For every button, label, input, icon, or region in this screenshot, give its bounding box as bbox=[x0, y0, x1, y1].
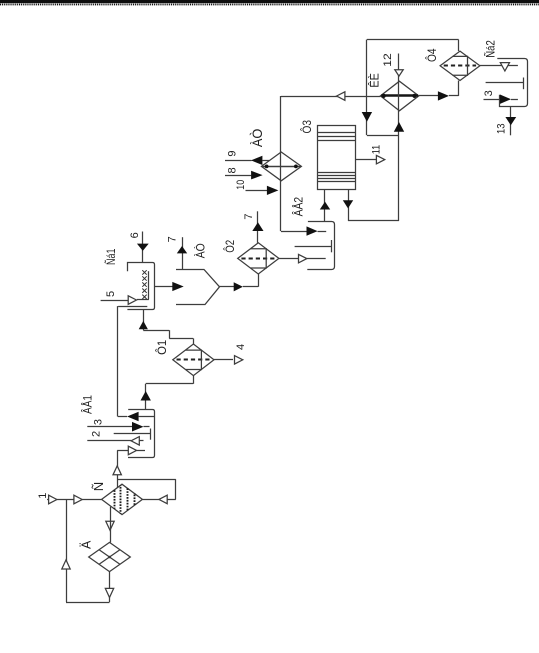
arrow filled right junction outlet bbox=[234, 282, 243, 291]
svg-text:2: 2 bbox=[91, 431, 103, 437]
column F3 packing stripes top bbox=[318, 132, 355, 134]
cooler F2 internal chords bbox=[251, 249, 267, 268]
arrow filled up on BE1 vapor outlet bbox=[141, 391, 151, 401]
arrow filled right Cb1 outlet bbox=[172, 282, 183, 291]
wire compressor discharge riser to BE1 bbox=[117, 450, 119, 487]
arrow filled left stream 9 bbox=[251, 156, 263, 165]
wire top recycle loop left vertical bbox=[366, 40, 368, 136]
arrow open down below compressor bbox=[106, 521, 114, 530]
throttle D internal lattice bbox=[99, 550, 120, 565]
svg-text:Ä: Ä bbox=[80, 540, 94, 549]
svg-text:12: 12 bbox=[382, 53, 394, 67]
arrow filled right stream 3 into Cb2 bbox=[500, 95, 511, 104]
arrow filled up into Cb1 bottom bbox=[139, 321, 148, 329]
wire stream 13 out of Cb2 bottom bbox=[510, 107, 512, 136]
arrow open up on compressor discharge bbox=[113, 466, 121, 475]
wire stream 12 into KI top bbox=[398, 54, 400, 70]
svg-text:6: 6 bbox=[129, 232, 141, 238]
cooler F2 diamond bbox=[238, 243, 279, 274]
wire stream 7 out of F2 top bbox=[257, 211, 259, 243]
svg-text:8: 8 bbox=[227, 167, 239, 173]
separator Cb1 demister support line bbox=[148, 271, 150, 299]
wire stream 5 into Cb1 bbox=[101, 300, 129, 302]
separator Cb2 internal weir bbox=[486, 82, 524, 84]
vessel BE1 shell bbox=[128, 410, 155, 458]
cooler F1 dashed centerline bbox=[177, 359, 211, 361]
svg-text:Ô4: Ô4 bbox=[424, 48, 439, 62]
arrow open on stream 1 (second) bbox=[74, 495, 82, 504]
svg-text:3: 3 bbox=[483, 90, 495, 96]
wire KI feed from left (main pipe) bbox=[281, 96, 380, 98]
throttle D diamond bbox=[89, 542, 131, 571]
arrow open up on throttle loop left bbox=[62, 560, 70, 569]
separator Cb2 shell bbox=[497, 59, 527, 107]
wire stream 7 takeoff at junction bbox=[182, 237, 184, 269]
svg-text:9: 9 bbox=[227, 150, 239, 156]
arrow filled up stream 7 takeoff bbox=[177, 246, 187, 253]
mixing junction jaws bbox=[176, 270, 220, 305]
svg-text:11: 11 bbox=[371, 145, 383, 155]
arrow open on stream 1 (first) bbox=[49, 495, 57, 504]
svg-text:ÂÅ1: ÂÅ1 bbox=[80, 395, 95, 414]
contact evaporator KI diamond bbox=[380, 81, 418, 111]
wire stream 1 inlet line bbox=[47, 499, 102, 501]
cooler F1 diamond bbox=[173, 344, 214, 376]
wire column outlet across to KI riser bbox=[348, 220, 399, 222]
vessel BE1 internal weir bbox=[114, 433, 151, 435]
svg-text:Ñá1: Ñá1 bbox=[104, 248, 118, 265]
arrow filled left at BE1 top inlet bbox=[127, 412, 139, 422]
arrow filled down stream 13 bbox=[505, 117, 516, 125]
arrow open left stream 2 bbox=[131, 437, 139, 446]
arrow open right stream 5 bbox=[128, 296, 136, 305]
air cooler AT dumbbell line bbox=[262, 166, 301, 168]
svg-text:ÂÅ2: ÂÅ2 bbox=[291, 197, 306, 217]
wire throttle loop right riser bbox=[109, 572, 111, 602]
wire column bottom outlet down right bbox=[348, 190, 350, 221]
wire top loop horizontal bbox=[367, 39, 459, 41]
arrow open left on bypass return bbox=[159, 495, 167, 504]
arrow open right compressor feed into BE1 bbox=[128, 446, 136, 455]
svg-text:Ô2: Ô2 bbox=[222, 240, 237, 253]
svg-text:Ñá2: Ñá2 bbox=[484, 40, 498, 58]
wire stream 10 into main pipe bbox=[246, 190, 268, 192]
wire BE1 vapor outlet up to F1 loop bbox=[145, 384, 147, 410]
arrow open right stream 11 bbox=[376, 155, 384, 164]
page top hatched border bbox=[0, 0, 539, 3]
wire BE2 vapor up to column KO bbox=[324, 190, 326, 222]
arrow open left on KI feed wire bbox=[337, 92, 345, 101]
wire stream 2 from BE1 bbox=[87, 440, 131, 442]
separator Cb1 demister x-marks bbox=[142, 270, 146, 299]
cooler F4 diamond bbox=[440, 51, 480, 80]
svg-text:7: 7 bbox=[167, 236, 179, 242]
air cooler AT dumbbell dots bbox=[265, 165, 269, 169]
wire after BE1 lower inlet triangle bbox=[137, 450, 145, 452]
svg-text:Ô1: Ô1 bbox=[154, 340, 169, 355]
arrow filled down on recycle loop bbox=[362, 112, 372, 122]
wire F4 right to separator Cb2 bbox=[480, 65, 518, 67]
arrow open down below throttle D bbox=[105, 588, 113, 597]
wire stream 4 out of F1 bbox=[214, 359, 233, 361]
wire stream 8 into AT bbox=[225, 175, 251, 177]
svg-text:5: 5 bbox=[105, 291, 117, 297]
wire junction outlet bbox=[220, 286, 235, 288]
svg-text:1: 1 bbox=[37, 493, 49, 499]
wire KI outlet right to F4 bbox=[419, 95, 440, 97]
arrow open right into BE2 lower inlet bbox=[299, 254, 307, 263]
wire compressor bypass loop bbox=[117, 479, 176, 481]
contact evaporator KI thick bar bbox=[381, 94, 418, 97]
svg-text:ÀÒ: ÀÒ bbox=[193, 243, 208, 258]
cooler F4 dashed centerline bbox=[444, 65, 476, 67]
arrow filled right stream 8 bbox=[251, 171, 263, 180]
arrow filled right stream 3 into BE1 bbox=[132, 422, 144, 432]
vessel BE2 shell bbox=[307, 222, 334, 270]
wire stream 3 into BE1 bbox=[87, 426, 132, 428]
contact evaporator KI bar dots bbox=[382, 94, 386, 98]
arrow filled right stream 10 bbox=[267, 186, 279, 195]
compressor C diamond bbox=[102, 484, 143, 514]
wire throttle loop bottom bbox=[66, 602, 110, 604]
arrow filled right KI outlet bbox=[438, 91, 449, 100]
wire stream 6 into Cb1 top bbox=[142, 232, 144, 263]
wire top loop down to F4 top bbox=[458, 40, 460, 52]
svg-text:10: 10 bbox=[235, 180, 247, 190]
arrow open right stream 4 bbox=[235, 356, 243, 365]
arrow filled right into BE2 top inlet bbox=[307, 226, 318, 235]
svg-text:4: 4 bbox=[235, 344, 247, 350]
arrow open down into Cb2 bbox=[500, 63, 509, 71]
svg-text:7: 7 bbox=[243, 214, 255, 220]
arrow filled up into KI bottom bbox=[394, 122, 404, 132]
wire main pipe down through AT into BE2 bbox=[280, 96, 282, 231]
separator Cb1 inner bottom line bbox=[118, 306, 147, 308]
wire KI riser bbox=[398, 111, 400, 221]
wire stream 11 out of column bbox=[355, 159, 376, 161]
svg-text:ÀÒ: ÀÒ bbox=[250, 129, 265, 148]
cooler F2 dashed centerline bbox=[241, 258, 274, 260]
vessel BE2 internal weir bbox=[295, 246, 332, 248]
column F3 shell bbox=[318, 126, 356, 190]
svg-text:Ñ: Ñ bbox=[91, 482, 106, 491]
wire liquid from Cb1 down into BE1 bbox=[117, 306, 119, 416]
svg-text:3: 3 bbox=[93, 419, 105, 425]
arrow filled up stream 7 from F2 bbox=[252, 222, 263, 231]
svg-text:Ô3: Ô3 bbox=[299, 120, 314, 134]
wire Cb1 vapor outlet right bbox=[154, 286, 172, 288]
arrow filled up into column bbox=[320, 202, 330, 210]
wire F1 top to Cb1 bottom (step) bbox=[193, 338, 195, 344]
column F3 packing stripes bottom bbox=[318, 172, 355, 174]
wire F2 right to BE2 bbox=[279, 258, 299, 260]
wire stream 3 into Cb2 bbox=[484, 99, 502, 101]
svg-text:ÊÈ: ÊÈ bbox=[366, 73, 381, 88]
cooler F4 internal chords bbox=[453, 56, 468, 75]
compressor C internal hatch dotted lines bbox=[115, 485, 135, 513]
wire branch down to throttle loop bbox=[66, 500, 68, 603]
air cooler AT diamond bbox=[261, 152, 301, 181]
arrow filled down column bottom outlet bbox=[343, 200, 353, 208]
svg-text:13: 13 bbox=[496, 124, 508, 135]
cooler F1 internal chords bbox=[186, 350, 202, 369]
arrow filled down stream 6 bbox=[137, 244, 149, 251]
separator Cb1 shell bbox=[127, 263, 154, 310]
wire recycle loop T to KI riser bbox=[367, 135, 399, 137]
wire stream 9 out of AT bbox=[225, 160, 252, 162]
arrow open down stream 12 bbox=[395, 70, 403, 76]
wire compressor bottom to throttle top bbox=[110, 507, 112, 543]
